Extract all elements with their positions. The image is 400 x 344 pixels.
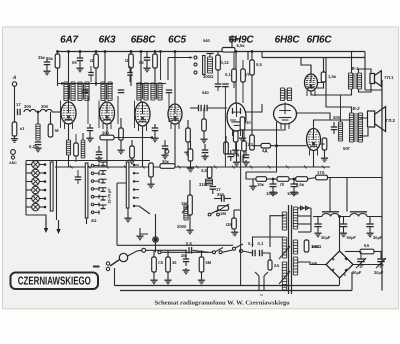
wire w mains up [270, 216, 285, 247]
wire bus drop 262 [261, 52, 263, 58]
wire w141 [140, 52, 142, 103]
wire wg1b [89, 131, 91, 136]
inductor B-2 secondary [358, 113, 362, 142]
wire w u5 bottom [236, 131, 238, 160]
inductor coil IF4 pri [151, 83, 155, 100]
switch contact a [194, 56, 197, 59]
switch contact s4 [133, 188, 139, 190]
wire wr41b [190, 161, 192, 166]
wire w152b [146, 60, 148, 66]
wire wca3b [185, 262, 187, 266]
bridge rectifier VD1-VD4 [326, 251, 353, 278]
wire wr35 [233, 52, 235, 70]
wire core B-2 a [354, 113, 356, 142]
svg-text:6Б8С: 6Б8С [131, 35, 157, 46]
wire wu8c2 [324, 150, 326, 156]
wire w 365 to bus [365, 89, 382, 91]
resistor R17 grid [202, 119, 207, 131]
trimmer CT1 [100, 162, 107, 166]
wire w osc [37, 112, 39, 124]
svg-text:50Г: 50Г [343, 146, 351, 151]
resistor R30 100 [304, 240, 309, 252]
resistor R11 [119, 128, 124, 140]
svg-text:Ω5: Ω5 [226, 222, 232, 227]
wire heater bus [55, 166, 330, 168]
wire w 5a l [345, 251, 360, 253]
svg-text:6П6С: 6П6С [307, 35, 333, 46]
capacitor C7 [87, 128, 94, 131]
svg-text:М: М [55, 128, 59, 133]
svg-text:Schemat radiogramofonu W. W. C: Schemat radiogramofonu W. W. Czerniawski… [155, 300, 290, 307]
switch mains p2 b [240, 250, 243, 253]
resistor R33 [166, 257, 171, 272]
wire w80b [79, 61, 81, 66]
wire B+ bus top [57, 51, 365, 53]
capacitor C14 [243, 155, 250, 158]
lamp LP2 [32, 169, 40, 177]
svg-text:300: 300 [41, 104, 49, 109]
heater tick [70, 166, 73, 169]
resistor R16 47 [149, 163, 154, 177]
svg-text:В-2: В-2 [352, 106, 360, 111]
resistor FU1 2A [268, 260, 279, 270]
switch arrow [190, 56, 193, 59]
inductor L5 300ohm [203, 57, 214, 79]
wire wca3 [185, 250, 187, 259]
inductor L9 fb 300 [333, 115, 343, 141]
resistor R24 4D [277, 177, 289, 187]
wire wc17l [214, 198, 222, 200]
wire L5 core top [207, 53, 214, 55]
svg-text:6К3: 6К3 [99, 35, 116, 46]
switch contact s3 [133, 180, 139, 182]
junction nr28 [275, 144, 278, 147]
wire core B-2 b [356, 113, 358, 142]
inductor coil IF5 sec [287, 88, 291, 101]
wire w choke drop1 [329, 178, 331, 212]
resistor R12 [186, 128, 191, 142]
svg-text:CZERNIAWSKIEGO: CZERNIAWSKIEGO [18, 276, 91, 288]
resistor R35 plate a [225, 69, 236, 82]
resistor R14 [130, 146, 135, 158]
wire w u8 plate [314, 120, 352, 129]
wire w C24 30uF [369, 217, 371, 225]
inductor L3 osc 0.25 [29, 124, 40, 149]
wire lamp lead L2 [26, 172, 32, 174]
svg-text:2М: 2М [181, 253, 187, 258]
wire wr13 [114, 137, 152, 139]
junction lamp dot6 [44, 206, 47, 209]
heater tick [268, 166, 271, 169]
svg-text:Л!: Л! [280, 182, 284, 187]
wire w B1 sec top [359, 69, 372, 74]
wire w plug a [258, 276, 260, 290]
wire w mains m [222, 250, 233, 252]
tube U3 6B8S [135, 102, 150, 131]
wire g switch wire [127, 208, 129, 216]
junction n junction [154, 238, 158, 242]
arrow arr2 [56, 220, 60, 234]
wire wg1 [89, 124, 91, 128]
wire w96b [95, 68, 97, 86]
svg-text:05: 05 [139, 60, 144, 65]
switch contact b [194, 63, 197, 66]
wire wc19b [293, 187, 295, 190]
inductor coil IF4 sec [158, 83, 162, 100]
wire screen bus a [57, 83, 113, 85]
svg-text:6С5: 6С5 [168, 35, 186, 46]
speaker GL2 ГЛ.2 [368, 107, 396, 132]
wire B+ right bus [381, 80, 383, 291]
wire w323 [323, 58, 325, 73]
svg-text:10к: 10к [257, 182, 265, 187]
resistor R2 plate 6K3 [90, 54, 98, 68]
switch mains p1 b [219, 251, 222, 254]
wire wgj [140, 228, 148, 234]
inductor L8 [199, 179, 213, 187]
svg-text:20μF: 20μF [374, 270, 384, 275]
wire wr14 [131, 140, 133, 146]
junction n ant [37, 111, 40, 114]
svg-text:0,1: 0,1 [248, 241, 254, 246]
resistor R13 [100, 131, 114, 140]
capacitor C18 100uF [266, 184, 279, 196]
wire w u6 bot [241, 124, 285, 130]
wire wr38 [225, 136, 227, 142]
tube U1 6A7 [61, 102, 76, 129]
capacitor C13 couple [205, 105, 208, 112]
capacitor C37 [127, 73, 133, 76]
tube U7 6P6S-1 [305, 74, 318, 96]
resistor R36 plate b [241, 69, 249, 82]
wire w47t [46, 57, 48, 62]
inductor B-2 primary [349, 113, 353, 142]
wire w gl2 [98, 101, 100, 129]
svg-text:30μF: 30μF [321, 235, 331, 240]
wire w80 [79, 52, 81, 59]
switch mains p1 a [213, 251, 216, 254]
wire bottom bus 2 [120, 290, 352, 292]
svg-text:4Д: 4Д [262, 148, 267, 153]
wire w47b [46, 65, 48, 69]
wire lamp lead R4 [39, 189, 46, 191]
resistor R4 plate 6S5 [153, 54, 158, 68]
svg-text:0,5: 0,5 [233, 152, 239, 157]
ground g80 [76, 66, 83, 72]
jack ZV outer [11, 150, 16, 155]
junction n236 [235, 50, 238, 53]
capacitor C28 [183, 259, 190, 262]
wire wr36 [242, 60, 244, 69]
capacitor C24 30uF [366, 224, 374, 227]
wire sw lever 1 [215, 248, 223, 252]
inductor L4 cath [66, 140, 70, 155]
wire w C23 50uFb [343, 227, 345, 231]
junction n252 [251, 50, 254, 53]
wire w105 [104, 52, 106, 103]
wire w C22 30uF [317, 217, 319, 225]
contact pair p2 [91, 171, 99, 175]
wire w junction down [155, 242, 157, 252]
junction n141 [140, 50, 143, 53]
wire wc15b [230, 157, 232, 161]
wire wc11 [164, 140, 166, 146]
ground g ca [242, 160, 249, 166]
ground g chain [249, 184, 256, 190]
wire w175 [174, 52, 176, 105]
svg-text:300: 300 [102, 131, 110, 136]
switch contact s5 [133, 197, 139, 199]
resistor R29 u8 cath [322, 138, 327, 150]
svg-text:+: + [344, 273, 347, 278]
wire w57b [57, 68, 59, 86]
wire w mains l [161, 251, 213, 253]
junction n57 [56, 50, 59, 53]
wire w R33 b [167, 272, 169, 278]
wire wc36 [90, 66, 92, 73]
rect symbol a [301, 206, 305, 210]
ground g152 [143, 66, 150, 72]
wire wg2b [120, 140, 122, 148]
wire core IF1b [83, 83, 85, 100]
wire filter bus c [367, 216, 382, 218]
wire wu8c [321, 143, 325, 145]
wire w B2 top [326, 58, 352, 114]
svg-text:2Ω: 2Ω [91, 218, 97, 223]
ground g R34 [198, 278, 205, 284]
wire heater loop 1 [298, 207, 311, 209]
wire wrc [242, 130, 244, 136]
svg-text:30μF: 30μF [373, 235, 383, 240]
wire w v2254 [224, 87, 226, 167]
capacitor C1 ant [16, 102, 21, 115]
wire wr28r [271, 145, 307, 147]
wire bottom bus 2 up [351, 272, 353, 291]
wire sw tone lever [211, 210, 220, 215]
wire wr27b [243, 151, 245, 158]
resistor R21 tone [218, 206, 229, 216]
wire w junction [155, 214, 157, 237]
capacitor C16 17 [210, 187, 222, 193]
wire wr37 [235, 142, 237, 148]
inductor TR secondary seg2 [293, 240, 297, 254]
U5 plate bars [230, 108, 243, 122]
capacitor C36 [88, 73, 94, 76]
resistor R23 10k [256, 177, 267, 187]
inductor coil IF1b pri [78, 82, 82, 101]
wire w plug b [263, 276, 265, 290]
ground gg1 [86, 136, 93, 142]
svg-text:1,5к: 1,5к [328, 74, 337, 79]
ground gr14 [128, 158, 135, 164]
wire band bar wire [56, 161, 58, 221]
wire wc29 [217, 70, 219, 84]
svg-text:5А: 5А [364, 243, 369, 248]
node ring [153, 237, 159, 243]
ground g rg [200, 137, 207, 143]
ground g R32 [150, 278, 157, 284]
capacitor C19 100uF [287, 184, 300, 196]
junction nc19 [293, 178, 296, 181]
junction n131 [130, 50, 133, 53]
wire w C24 30uFb [369, 227, 371, 231]
wire w c31 [360, 252, 362, 254]
wire w248 [247, 52, 249, 61]
svg-text:АБС: АБС [9, 161, 17, 165]
ground gc10 [95, 156, 102, 162]
rect symbol b [306, 206, 310, 210]
transformer TR core a [288, 205, 290, 294]
inductor coil IF3 pri [137, 83, 141, 100]
wire w sw top [168, 57, 191, 59]
wire wg4b [187, 142, 189, 150]
wire wra [251, 104, 253, 135]
capacitor C3 [72, 58, 83, 65]
inductor B-1 primary [348, 73, 352, 89]
svg-text:С5: С5 [158, 260, 164, 265]
trimmer CT3 [100, 179, 107, 183]
wire lamp col left [25, 161, 27, 216]
capacitor C8 [152, 128, 159, 131]
ground gr41 [187, 166, 194, 172]
trimmer CT6 [100, 205, 107, 209]
wire core B-1 a [353, 73, 355, 89]
capacitor C34 [118, 90, 125, 93]
capacitor C17 250 [217, 192, 225, 202]
wire w160b [154, 68, 156, 86]
capacitor C4 [139, 58, 150, 66]
pot arrow [216, 204, 229, 212]
ground gg4 [184, 150, 191, 156]
wire wc29b [217, 87, 219, 91]
resistor R32 [152, 257, 157, 272]
switch mains p2 a [233, 247, 236, 250]
ground g C22 30uF [314, 231, 321, 237]
svg-text:300: 300 [333, 115, 341, 120]
wire wca [245, 150, 247, 155]
junction n175 [174, 50, 177, 53]
wire w252b [251, 75, 253, 104]
lamp LP6 [32, 203, 40, 211]
svg-text:6Н8С: 6Н8С [275, 35, 301, 46]
switch tone b [217, 213, 220, 216]
wire w gl3 [134, 101, 136, 129]
svg-text:2А: 2А [274, 263, 279, 268]
heater tick [106, 166, 109, 169]
wire sw lever 2 [235, 244, 243, 248]
wire w R34 b [201, 272, 203, 278]
wire core IF4 [156, 84, 158, 99]
contact pair p5 [91, 195, 99, 199]
resistor R22 0.5 [226, 218, 236, 229]
capacitor C38 [75, 177, 82, 180]
switch tone a [208, 213, 211, 216]
heater tick [232, 166, 235, 169]
wire w301 [301, 58, 311, 75]
contact pair p6 [91, 203, 99, 207]
wire pickup out [128, 250, 142, 256]
capacitor C9 [202, 150, 209, 153]
svg-text:07: 07 [236, 37, 241, 42]
wire w ant2 [52, 111, 61, 113]
resistor R39 cath [74, 143, 79, 156]
wire switch sel [139, 206, 150, 214]
wire w u8 bottom [313, 151, 315, 168]
svg-text:0,5: 0,5 [256, 62, 262, 67]
resistor R31 5A [360, 243, 374, 254]
wire wg4 [187, 120, 189, 128]
svg-text:17: 17 [16, 102, 21, 107]
pickup node [142, 248, 146, 252]
wire w oscr [50, 112, 52, 124]
wire w chain r [328, 177, 383, 179]
wire w131 [130, 52, 132, 55]
wire w u2 bottom [106, 124, 108, 167]
wire w R32 b [153, 272, 155, 278]
wire w antd [14, 112, 16, 122]
wire wc15 [230, 150, 232, 154]
wire wr41 [190, 141, 192, 149]
capacitor C5 07 [229, 37, 242, 42]
inductor coil IF3 sec [144, 83, 148, 100]
wire wr35b [233, 82, 235, 88]
tube U5 6N9S [227, 103, 246, 136]
svg-text:1М: 1М [220, 211, 226, 216]
inductor coil IF2 pri [101, 82, 105, 101]
wire w236 [235, 52, 237, 104]
wire w v2406 [240, 150, 242, 286]
inductor L2 ant [40, 104, 52, 112]
wire pickup arm [110, 260, 120, 267]
junction n bridge [338, 215, 341, 218]
wire w u7 plate [311, 89, 352, 95]
wire lamp lead R6 [39, 206, 46, 208]
wire w232 [231, 40, 233, 48]
wire w sw drop [167, 58, 169, 81]
junction n105 [104, 50, 107, 53]
wire L5 core stem [209, 54, 211, 58]
wire w u4 bottom [174, 124, 176, 167]
svg-text:17А: 17А [317, 170, 325, 175]
capacitor C10 [96, 152, 103, 155]
wire wc19 [293, 179, 295, 184]
wire w fuse [262, 253, 270, 260]
capacitor C12 couple [199, 105, 202, 112]
inductor L6 [81, 140, 85, 158]
wire w vol top [189, 180, 191, 195]
wire w chain l [246, 172, 256, 179]
contact pair p1 [91, 164, 99, 168]
resistor R20 [201, 167, 212, 178]
wire wc38 [77, 170, 79, 177]
capacitor C32 20uF [376, 253, 386, 268]
junction nsb3 [140, 82, 142, 84]
wire w160 [154, 52, 156, 55]
wire w sg2 [117, 96, 119, 124]
wire wc10 [98, 146, 100, 152]
heater tick [160, 166, 163, 169]
ground g r22 [231, 230, 238, 236]
arrow arr1 [44, 218, 48, 233]
wire wc18b [272, 187, 274, 190]
wire heater loop 4 [298, 231, 311, 233]
svg-text:A: A [12, 75, 17, 81]
wire w chain m1 [267, 178, 278, 180]
junction lamp dot1 [44, 163, 47, 166]
wire AVC bus [26, 160, 150, 162]
heater tick [142, 166, 145, 169]
wire wc18 [272, 179, 274, 184]
